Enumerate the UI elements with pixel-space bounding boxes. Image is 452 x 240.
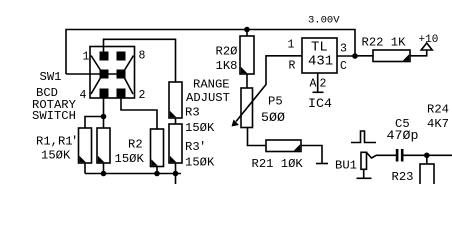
svg-text:R24: R24 bbox=[427, 103, 449, 117]
svg-text:A: A bbox=[310, 78, 317, 91]
svg-text:R22 1K: R22 1K bbox=[362, 36, 407, 50]
svg-text:1: 1 bbox=[288, 39, 295, 52]
connector BU1 body bbox=[361, 152, 367, 169]
wire R20 bottom to P5 bbox=[246, 74, 248, 88]
svg-text:R23: R23 bbox=[392, 170, 414, 184]
resistor R1 bbox=[79, 128, 92, 163]
wire to R1 top bbox=[85, 117, 104, 129]
wire C5 to right edge bbox=[404, 154, 452, 156]
svg-text:R1,R1: R1,R1 bbox=[36, 135, 73, 149]
node junction dot pin3/R22 bbox=[352, 53, 358, 59]
SW1 contact bottom-left bbox=[100, 89, 109, 98]
wire R3 to R3' bbox=[175, 118, 177, 124]
wire SW1 wiper diagonal lower-right bbox=[124, 77, 133, 94]
wire SW1 wiper to rail bbox=[66, 73, 104, 75]
svg-text:8: 8 bbox=[139, 50, 146, 63]
node junction dot rail R3' bbox=[173, 171, 179, 177]
svg-text:2: 2 bbox=[320, 78, 327, 91]
switch SW1 body bbox=[90, 47, 135, 99]
wire P5 bottom to R21 bbox=[248, 128, 267, 146]
SW1 contact top-right bbox=[117, 52, 126, 61]
wire SW1 wiper diagonal upper-right bbox=[124, 56, 134, 72]
wire BU1 bottom to ground bbox=[363, 169, 365, 178]
svg-text:1: 1 bbox=[83, 51, 90, 64]
svg-text:': ' bbox=[71, 135, 78, 149]
SW1 contact bottom-right bbox=[117, 89, 126, 98]
svg-text:C: C bbox=[340, 60, 347, 73]
wire R21 right to ground bbox=[301, 146, 322, 164]
SW1 contact top-left bbox=[100, 52, 109, 61]
svg-text:5ØØ: 5ØØ bbox=[261, 110, 285, 125]
wire TL431 pin3 to rail node bbox=[337, 55, 355, 57]
wire R22 to +10 arrow bbox=[410, 50, 427, 56]
svg-text:SWITCH: SWITCH bbox=[32, 109, 76, 123]
wire SW1 middle link bbox=[104, 73, 121, 75]
SW1 contact mid-right bbox=[117, 70, 126, 79]
wire bottom rail bbox=[85, 173, 181, 175]
wire SW1 pin4 down bbox=[103, 93, 105, 128]
svg-text:15ØK: 15ØK bbox=[185, 156, 215, 170]
svg-text:+10: +10 bbox=[419, 34, 439, 46]
ground bar R21 bbox=[316, 163, 328, 165]
svg-text:1K8: 1K8 bbox=[216, 59, 238, 73]
svg-text:431: 431 bbox=[308, 54, 333, 70]
svg-text:R3: R3 bbox=[185, 140, 200, 154]
P5 wiper arrowhead bbox=[232, 120, 240, 127]
node junction dot R20 top bbox=[244, 27, 250, 33]
svg-text:R: R bbox=[289, 60, 296, 73]
pulse waveform symbol bbox=[351, 131, 376, 143]
resistor R1' bbox=[97, 128, 110, 163]
svg-text:R2: R2 bbox=[128, 138, 143, 152]
resistor R3' bbox=[169, 124, 182, 163]
resistor R2 bbox=[151, 129, 164, 167]
svg-text:': ' bbox=[199, 140, 206, 154]
svg-text:3.00V: 3.00V bbox=[308, 15, 340, 27]
svg-text:4: 4 bbox=[80, 89, 87, 102]
wire node to R22 bbox=[355, 55, 373, 57]
svg-text:IC4: IC4 bbox=[308, 96, 332, 111]
wire SW1 wiper diagonal upper-left bbox=[91, 56, 101, 72]
capacitor C5 plate left bbox=[396, 149, 399, 162]
resistor R21 bbox=[266, 140, 301, 152]
node junction dot rail R2 bbox=[154, 171, 160, 177]
wire node to R23 bbox=[426, 155, 428, 164]
svg-text:R3: R3 bbox=[185, 106, 200, 120]
svg-text:RANGE: RANGE bbox=[193, 78, 230, 92]
wire BU1 to C5 bbox=[377, 154, 396, 156]
svg-text:BU1: BU1 bbox=[335, 159, 357, 173]
ground bar BU1 bbox=[357, 177, 372, 179]
wire SW1 pin2 down to R2 bbox=[121, 93, 157, 129]
wire R3' bottom to edge bbox=[175, 163, 177, 184]
svg-text:4K7: 4K7 bbox=[427, 117, 449, 131]
svg-text:15ØK: 15ØK bbox=[115, 152, 145, 166]
svg-text:3: 3 bbox=[340, 43, 347, 56]
BU1 contact notch bbox=[367, 153, 378, 159]
svg-text:47Øp: 47Øp bbox=[387, 128, 419, 143]
capacitor C5 plate right bbox=[401, 149, 404, 162]
resistor R22 bbox=[373, 50, 410, 62]
resistor R23 bbox=[420, 164, 434, 186]
potentiometer P5 bbox=[241, 88, 253, 128]
resistor R20 bbox=[240, 36, 254, 74]
svg-text:2: 2 bbox=[139, 89, 146, 102]
op-amp U1 : TL431 box bbox=[302, 38, 337, 73]
wire R2 bottom bbox=[156, 167, 158, 174]
wire SW1 wiper diagonal lower-left bbox=[91, 77, 101, 94]
P5 wiper arm from TL431 R pin bbox=[236, 56, 302, 122]
svg-text:15ØK: 15ØK bbox=[185, 121, 215, 135]
svg-text:ADJUST: ADJUST bbox=[186, 91, 230, 105]
svg-text:15ØK: 15ØK bbox=[41, 149, 71, 163]
wire top 3.00V rail bbox=[66, 30, 355, 75]
resistor R3 bbox=[169, 82, 182, 118]
ground bar TL431 bbox=[313, 91, 324, 93]
SW1 contact mid-left bbox=[100, 70, 109, 79]
wire R1 bottom bbox=[84, 163, 86, 174]
wire R20 top bbox=[246, 30, 248, 37]
node junction dot C5/R23 bbox=[424, 153, 430, 159]
svg-text:R21 1ØK: R21 1ØK bbox=[252, 157, 304, 171]
+10 supply arrow bbox=[421, 43, 432, 50]
wire TL431 pin2 anode down bbox=[317, 73, 319, 92]
node junction dot pin4/R1/R1' bbox=[101, 114, 107, 120]
node junction dot rail R1' bbox=[101, 171, 107, 177]
svg-text:P5: P5 bbox=[268, 95, 283, 109]
wire SW1 pin1 up to R3 bbox=[104, 39, 176, 82]
wire R1' bottom bbox=[103, 163, 105, 174]
svg-text:SW1: SW1 bbox=[40, 70, 62, 84]
svg-text:R2Ø: R2Ø bbox=[216, 45, 238, 59]
